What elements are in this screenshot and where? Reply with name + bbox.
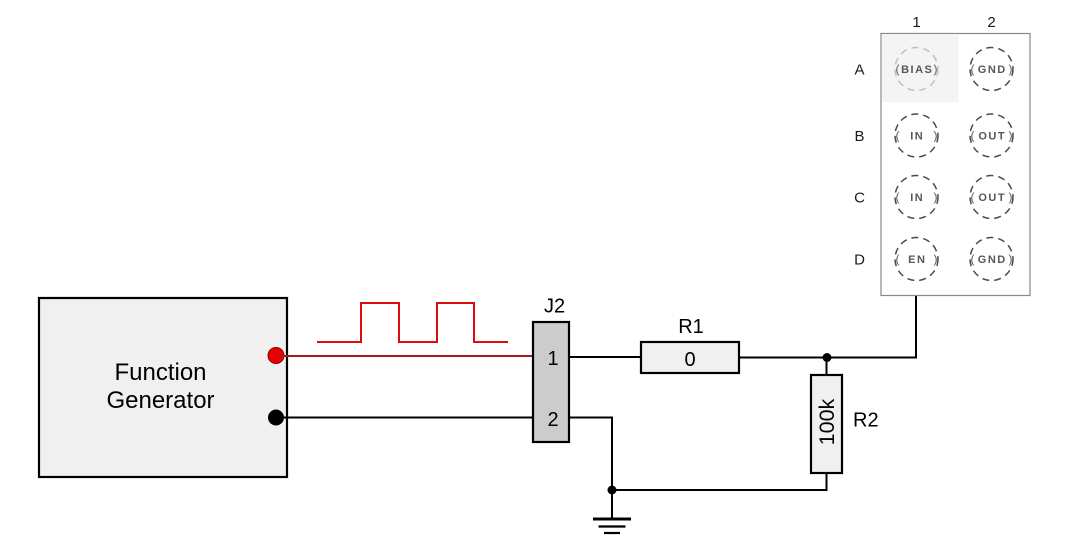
svg-text:C: C bbox=[854, 190, 865, 207]
svg-text:): ) bbox=[934, 129, 938, 143]
svg-text:IN: IN bbox=[910, 192, 924, 204]
svg-text:): ) bbox=[934, 190, 938, 204]
function generator FG body bbox=[39, 298, 287, 477]
svg-text:(: ( bbox=[896, 252, 900, 266]
square wave signal symbol bbox=[317, 303, 508, 342]
svg-text:(: ( bbox=[971, 62, 975, 76]
wire node to EN pin bbox=[827, 281, 916, 358]
pin D2 GND bbox=[970, 238, 1013, 281]
wire J2 pin1 to R1 bbox=[569, 356, 641, 358]
svg-text:EN: EN bbox=[908, 254, 926, 266]
row label A bbox=[854, 62, 864, 79]
FG negative output terminal (black) bbox=[268, 410, 284, 426]
pin D1 EN bbox=[895, 238, 938, 281]
svg-text:1: 1 bbox=[547, 348, 558, 370]
svg-text:D: D bbox=[854, 252, 865, 269]
pin C2 OUT bbox=[970, 176, 1013, 219]
svg-text:): ) bbox=[934, 62, 938, 76]
FG positive output terminal (red) bbox=[268, 348, 284, 364]
row label C bbox=[854, 190, 865, 207]
svg-text:Generator: Generator bbox=[106, 387, 214, 414]
pin B1 IN bbox=[895, 114, 938, 157]
wire node to R2 top bbox=[826, 358, 828, 376]
svg-text:2: 2 bbox=[987, 14, 995, 31]
svg-text:100k: 100k bbox=[815, 398, 839, 445]
row label D bbox=[854, 252, 865, 269]
ground junction dot bbox=[608, 486, 617, 495]
svg-text:(: ( bbox=[896, 190, 900, 204]
svg-text:OUT: OUT bbox=[978, 131, 1006, 143]
svg-text:1: 1 bbox=[912, 14, 920, 31]
svg-text:BIAS: BIAS bbox=[901, 64, 933, 76]
svg-text:(: ( bbox=[896, 129, 900, 143]
svg-text:A: A bbox=[854, 62, 864, 79]
column label 1 bbox=[912, 14, 920, 31]
wire FG- to J2 pin2 bbox=[276, 417, 533, 419]
resistor R2 value 100k bbox=[811, 375, 879, 473]
svg-text:2: 2 bbox=[547, 409, 558, 431]
svg-text:J2: J2 bbox=[544, 296, 565, 318]
connector J2 bbox=[533, 296, 569, 443]
svg-text:): ) bbox=[1009, 129, 1013, 143]
svg-text:): ) bbox=[1009, 62, 1013, 76]
column label 2 bbox=[987, 14, 995, 31]
svg-text:B: B bbox=[854, 128, 864, 145]
svg-text:R1: R1 bbox=[678, 316, 704, 338]
highlighted cell A1 bbox=[882, 34, 959, 102]
svg-text:): ) bbox=[934, 252, 938, 266]
svg-text:GND: GND bbox=[978, 254, 1007, 266]
row label B bbox=[854, 128, 864, 145]
svg-text:): ) bbox=[1009, 252, 1013, 266]
svg-text:GND: GND bbox=[978, 64, 1007, 76]
wire J2 pin2 to ground junction bbox=[569, 418, 612, 491]
svg-text:(: ( bbox=[971, 129, 975, 143]
pin B2 OUT bbox=[970, 114, 1013, 157]
node junction R1/R2/EN bbox=[823, 353, 832, 362]
pin header grid outline bbox=[881, 34, 1030, 296]
wire R2 bottom to ground junction bbox=[612, 473, 827, 490]
ground symbol bbox=[593, 490, 631, 533]
wire FG+ to J2 pin1 (red) bbox=[276, 355, 533, 357]
svg-text:Function: Function bbox=[114, 359, 206, 386]
svg-text:OUT: OUT bbox=[978, 192, 1006, 204]
svg-text:IN: IN bbox=[910, 131, 924, 143]
svg-text:(: ( bbox=[971, 190, 975, 204]
wire R1 to node bbox=[739, 357, 827, 359]
svg-text:(: ( bbox=[896, 62, 900, 76]
svg-text:(: ( bbox=[971, 252, 975, 266]
pin C1 IN bbox=[895, 176, 938, 219]
svg-text:0: 0 bbox=[684, 349, 695, 371]
resistor R1 value 0 bbox=[641, 316, 739, 373]
pin A2 GND bbox=[970, 48, 1013, 91]
svg-text:): ) bbox=[1009, 190, 1013, 204]
pin A1 BIAS bbox=[895, 48, 938, 91]
svg-text:R2: R2 bbox=[853, 410, 879, 432]
